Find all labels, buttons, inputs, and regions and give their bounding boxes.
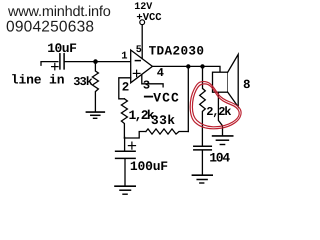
- resistor R-fb 33k horizontal: [146, 129, 188, 134]
- label -VCC: [145, 90, 180, 105]
- svg-text:3: 3: [143, 79, 150, 93]
- svg-text:10uF: 10uF: [47, 41, 77, 56]
- svg-text:8: 8: [243, 78, 251, 92]
- svg-text:104: 104: [209, 151, 230, 166]
- ground G3 under 104: [192, 175, 212, 183]
- node output junction A: [186, 64, 190, 68]
- wire 104 to ground: [201, 151, 203, 175]
- capacitor C-in 10uF plates: [60, 54, 64, 69]
- svg-text:4: 4: [157, 66, 164, 80]
- wire pin 2 loop: [119, 78, 131, 99]
- capacitor C3 104 plates: [194, 146, 212, 150]
- resistor R-fb2 1.2k vertical: [121, 99, 127, 138]
- capacitor C-in polarity plus: [52, 63, 58, 69]
- svg-text:100uF: 100uF: [130, 159, 168, 174]
- wire feedback riser: [187, 66, 189, 131]
- svg-text:33k: 33k: [73, 75, 92, 89]
- wire VCC to pin 5: [141, 25, 143, 59]
- wire cap to ground: [124, 159, 126, 186]
- ground G2 under speaker: [213, 136, 233, 145]
- capacitor C2 100uF plates: [116, 151, 136, 158]
- svg-text:5: 5: [136, 45, 142, 56]
- wire junction jog to 33k: [124, 132, 145, 139]
- svg-text:33k: 33k: [151, 113, 176, 128]
- resistor R-in 33k vertical: [92, 64, 98, 112]
- annotation red circle around 2.2k: [190, 82, 241, 129]
- speaker LS1 box: [213, 72, 228, 92]
- svg-text:0904250638: 0904250638: [6, 18, 94, 35]
- svg-text:TDA2030: TDA2030: [149, 44, 205, 59]
- ground G4 under 100uF: [115, 186, 135, 194]
- node line-in input terminal: [41, 62, 58, 66]
- node output junction B: [200, 64, 204, 68]
- wire output pin 4: [152, 66, 220, 72]
- node junction input: [93, 59, 98, 64]
- svg-text:1: 1: [121, 51, 127, 63]
- capacitor C2 100uF plus mark: [128, 142, 135, 149]
- wire junction to 100uF: [124, 137, 126, 151]
- wire speaker to ground: [218, 92, 222, 135]
- op-amp non-inverting plus mark: [133, 70, 140, 76]
- op-amp U1 TDA2030 triangle: [131, 50, 153, 83]
- svg-text:2: 2: [122, 80, 130, 94]
- ground G1 under 33k: [86, 112, 104, 118]
- svg-text:line in: line in: [11, 73, 65, 88]
- op-amp inverting minus mark: [135, 60, 140, 62]
- node +VCC open terminal: [140, 20, 145, 25]
- speaker LS1 horn: [228, 54, 239, 107]
- resistor R3 2.2k vertical: [200, 68, 206, 145]
- wire pin 3 to -VCC stub: [142, 75, 163, 87]
- wire cap to pin1: [65, 61, 131, 63]
- svg-text:VCC: VCC: [153, 90, 180, 105]
